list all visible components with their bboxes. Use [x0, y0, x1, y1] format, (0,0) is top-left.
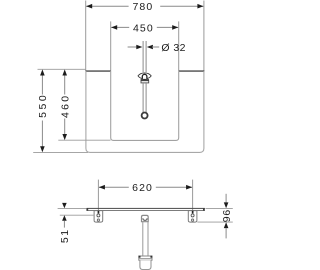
right bracket lower hole [192, 219, 194, 221]
drain flange dark collar bar [141, 79, 149, 80]
dimension 51 up arrowhead [62, 215, 67, 220]
svg-text:Ø 32: Ø 32 [161, 42, 186, 54]
dimension 51 stub above [63, 204, 65, 206]
dimension 96 upper stub [225, 194, 227, 203]
dimension 550 up arrowhead [40, 69, 45, 75]
dimension 550 upper line [41, 75, 43, 95]
left bracket body [94, 211, 103, 223]
extension line left of 780 [85, 1, 87, 71]
svg-text:460: 460 [59, 94, 71, 118]
drain pipe upper right line [145, 41, 147, 72]
dimension 620 left arrowhead [99, 185, 105, 190]
console slab bottom edge [87, 209, 205, 212]
svg-text:51: 51 [59, 228, 71, 243]
drain pipe lower right line [145, 83, 147, 112]
drain outlet opening arc [143, 218, 147, 220]
dimension 780 line left segment [86, 5, 128, 7]
dimension 96 lower extension line [197, 221, 232, 223]
dimension 460 down arrowhead [62, 134, 67, 140]
console slab top edge [87, 208, 205, 209]
extension line right of 620 [192, 180, 194, 212]
left bracket keyhole slot [98, 211, 100, 214]
dimension 780 left arrowhead [86, 4, 92, 9]
dimension 460 up arrowhead [62, 69, 67, 75]
drain pipe end ring [142, 113, 148, 119]
svg-text:550: 550 [37, 93, 49, 118]
cabinet inner cutout [111, 71, 179, 140]
dimension 96 lower stub [225, 228, 227, 239]
trap pipe left line [142, 222, 144, 256]
trap pipe right line [147, 222, 149, 256]
trap collar left nub [139, 256, 141, 258]
dimension 620 line right segment [156, 186, 192, 188]
dimension 780 line right segment [160, 5, 203, 7]
dimension 460 upper line [64, 75, 66, 95]
drain outlet housing [142, 215, 149, 221]
drain flange arch [142, 74, 147, 79]
console slab right end cap [203, 208, 205, 211]
right bracket keyhole slot [192, 211, 194, 214]
dimension Ø32 right arrowhead [147, 45, 153, 50]
trap collar [139, 256, 152, 260]
dimension 51 down arrowhead [62, 203, 67, 208]
drain pipe upper left line [142, 41, 144, 72]
extension line right of 780 [203, 1, 205, 71]
drain pipe lower left line [142, 83, 144, 112]
dimension 51 upper extension line [58, 207, 87, 209]
trap collar mid line [139, 257, 152, 259]
dimension Ø32 right arrow line [152, 46, 159, 48]
cabinet top edge right segment [179, 70, 205, 72]
dimension 620 line left segment [99, 186, 129, 188]
dimension 450 line left segment [111, 26, 129, 28]
trap cup [140, 260, 151, 269]
extension line top for 550/460 [38, 68, 86, 70]
cabinet outer outline [86, 71, 204, 152]
dimension 450 left arrowhead [111, 25, 117, 30]
extension line right of 450 [178, 21, 180, 70]
dimension 96 upper extension line [206, 207, 233, 209]
svg-text:96: 96 [221, 209, 233, 222]
trap collar right nub [150, 256, 152, 258]
right bracket keyhole ring [191, 214, 194, 217]
drain flange eye shape [138, 73, 151, 79]
extension line bottom for 460 [58, 139, 110, 141]
left bracket lower hole [97, 219, 99, 221]
extension line left of 450 [110, 21, 112, 70]
dimension 51 lower extension line [60, 214, 94, 216]
dimension Ø32 left arrowhead [136, 45, 142, 50]
dimension 96 down arrowhead [224, 202, 229, 208]
svg-text:780: 780 [132, 1, 153, 13]
dimension 620 right arrowhead [186, 185, 192, 190]
cabinet top edge left segment [86, 70, 111, 72]
dimension 96 up arrowhead [224, 222, 229, 228]
drain flange nut [141, 81, 149, 83]
dimension 550 lower line [41, 121, 43, 148]
right bracket body [188, 211, 197, 223]
dimension 450 line right segment [157, 26, 178, 28]
extension line left of 620 [97, 180, 99, 212]
svg-text:450: 450 [133, 23, 154, 35]
dimension 780 right arrowhead [197, 4, 203, 9]
console slab left end cap [86, 208, 88, 211]
left bracket keyhole ring [97, 214, 100, 217]
svg-text:620: 620 [132, 182, 153, 194]
dimension 450 right arrowhead [172, 25, 178, 30]
dimension 51 lower line [63, 221, 65, 228]
dimension Ø32 left arrow line [128, 46, 137, 48]
dimension 550 down arrowhead [40, 146, 45, 152]
dimension 460 lower line [64, 119, 66, 136]
extension line bottom for 550 [33, 151, 88, 153]
